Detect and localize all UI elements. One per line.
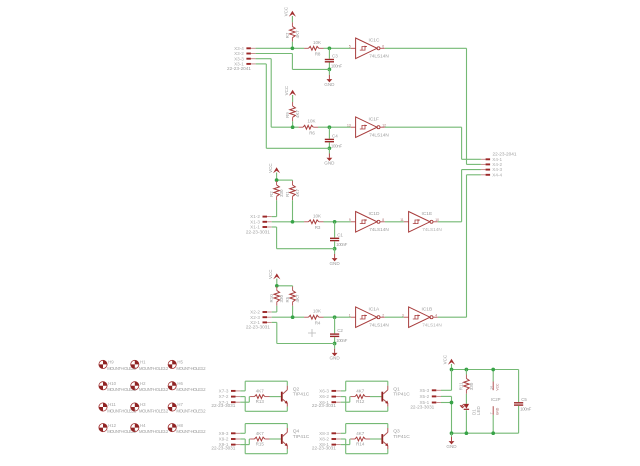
svg-text:IC1D: IC1D — [369, 211, 380, 217]
svg-text:4K7: 4K7 — [295, 30, 300, 39]
svg-text:Q1: Q1 — [393, 386, 400, 392]
svg-text:H12: H12 — [108, 423, 116, 428]
svg-text:4K7: 4K7 — [295, 294, 300, 303]
svg-text:4K7: 4K7 — [256, 389, 265, 394]
svg-text:10K: 10K — [313, 309, 321, 314]
svg-text:1: 1 — [349, 313, 351, 317]
svg-text:H5: H5 — [177, 360, 183, 365]
svg-text:MOUNT-HOLE3.2: MOUNT-HOLE3.2 — [139, 366, 169, 371]
svg-text:C2: C2 — [337, 328, 343, 333]
svg-text:GND: GND — [329, 356, 340, 361]
svg-text:100nF: 100nF — [520, 407, 532, 412]
svg-text:H2: H2 — [140, 381, 146, 386]
svg-text:100nF: 100nF — [336, 242, 348, 247]
svg-text:X9-3: X9-3 — [219, 431, 229, 436]
svg-text:4K7: 4K7 — [295, 188, 300, 197]
svg-text:MOUNT-HOLE3.2: MOUNT-HOLE3.2 — [176, 387, 206, 392]
svg-text:MOUNT-HOLE3.2: MOUNT-HOLE3.2 — [176, 429, 206, 434]
svg-text:100nF: 100nF — [331, 143, 343, 148]
svg-text:TIP41C: TIP41C — [393, 391, 410, 397]
svg-text:22-23-2041: 22-23-2041 — [493, 152, 517, 157]
svg-text:330: 330 — [279, 294, 284, 302]
svg-text:330: 330 — [469, 382, 474, 390]
svg-text:GND: GND — [324, 161, 335, 166]
svg-text:74LS14N: 74LS14N — [369, 133, 389, 138]
svg-text:IC1F: IC1F — [369, 117, 379, 123]
svg-text:C4: C4 — [332, 133, 338, 138]
svg-text:H7: H7 — [177, 402, 183, 407]
svg-text:7: 7 — [490, 412, 494, 414]
svg-text:X9-2: X9-2 — [219, 437, 229, 442]
svg-text:14: 14 — [490, 386, 494, 390]
svg-text:Q2: Q2 — [293, 386, 300, 392]
svg-text:C3: C3 — [332, 54, 338, 59]
svg-text:X8-3: X8-3 — [319, 431, 329, 436]
svg-text:X6-2: X6-2 — [319, 394, 329, 399]
svg-text:22-23-3031: 22-23-3031 — [410, 405, 434, 410]
svg-text:4K7: 4K7 — [256, 431, 265, 436]
svg-text:100nF: 100nF — [331, 63, 343, 68]
svg-text:TIP41C: TIP41C — [293, 434, 310, 440]
svg-text:4: 4 — [435, 313, 437, 317]
svg-text:74LS14N: 74LS14N — [369, 227, 389, 232]
svg-text:H9: H9 — [108, 360, 114, 365]
svg-text:4K7: 4K7 — [356, 431, 365, 436]
svg-text:H3: H3 — [140, 402, 146, 407]
svg-text:3: 3 — [402, 313, 404, 317]
svg-text:R8: R8 — [315, 51, 321, 56]
svg-text:R9: R9 — [285, 112, 290, 118]
svg-text:10K: 10K — [308, 119, 316, 124]
svg-text:X8-2: X8-2 — [319, 437, 329, 442]
svg-text:74LS14N: 74LS14N — [369, 323, 389, 328]
svg-text:VCC: VCC — [443, 354, 448, 364]
svg-text:11: 11 — [400, 218, 404, 222]
svg-text:VCC: VCC — [284, 85, 289, 95]
svg-text:LED: LED — [476, 405, 481, 415]
svg-text:R4: R4 — [315, 320, 321, 325]
svg-text:22-23-3031: 22-23-3031 — [246, 325, 270, 330]
svg-text:22-23-3031: 22-23-3031 — [246, 229, 270, 234]
svg-text:10K: 10K — [313, 40, 321, 45]
svg-text:GND: GND — [329, 261, 340, 266]
svg-text:X5-3: X5-3 — [419, 388, 429, 393]
svg-text:22-23-3031: 22-23-3031 — [211, 446, 235, 451]
svg-text:GND: GND — [446, 444, 457, 449]
svg-text:TIP41C: TIP41C — [393, 434, 410, 440]
svg-text:R12: R12 — [356, 399, 365, 404]
svg-text:X7-2: X7-2 — [219, 394, 229, 399]
svg-text:74LS14N: 74LS14N — [422, 323, 442, 328]
svg-text:R5: R5 — [285, 296, 290, 302]
svg-text:GND: GND — [496, 407, 500, 415]
svg-text:IC1A: IC1A — [369, 307, 380, 313]
svg-text:MOUNT-HOLE3.2: MOUNT-HOLE3.2 — [176, 408, 206, 413]
svg-text:Q4: Q4 — [293, 429, 300, 435]
svg-text:R6: R6 — [309, 130, 315, 135]
svg-text:IC1B: IC1B — [422, 307, 433, 313]
svg-text:10K: 10K — [313, 213, 321, 218]
svg-text:MOUNT-HOLE3.2: MOUNT-HOLE3.2 — [139, 387, 169, 392]
svg-text:C5: C5 — [521, 397, 527, 402]
svg-text:IC2P: IC2P — [491, 397, 501, 402]
svg-text:H1: H1 — [140, 360, 146, 365]
svg-text:8: 8 — [382, 218, 384, 222]
svg-text:5: 5 — [349, 44, 351, 48]
svg-text:Q3: Q3 — [393, 429, 400, 435]
svg-text:X4-4: X4-4 — [492, 172, 502, 177]
svg-text:VCC: VCC — [284, 6, 289, 16]
svg-text:9: 9 — [349, 218, 351, 222]
svg-text:H10: H10 — [108, 381, 116, 386]
svg-text:IC1E: IC1E — [422, 211, 433, 217]
svg-text:H6: H6 — [177, 381, 183, 386]
svg-text:R13: R13 — [256, 399, 265, 404]
svg-text:R15: R15 — [256, 442, 265, 447]
svg-text:MOUNT-HOLE3.2: MOUNT-HOLE3.2 — [176, 366, 206, 371]
svg-text:R3: R3 — [315, 225, 321, 230]
svg-text:MOUNT-HOLE3.2: MOUNT-HOLE3.2 — [139, 429, 169, 434]
svg-text:H8: H8 — [177, 423, 183, 428]
svg-text:4K7: 4K7 — [356, 389, 365, 394]
svg-text:X5-2: X5-2 — [419, 394, 429, 399]
svg-text:H11: H11 — [108, 402, 116, 407]
svg-text:R7: R7 — [285, 32, 290, 38]
svg-text:330: 330 — [279, 189, 284, 197]
svg-text:22-23-3031: 22-23-3031 — [312, 446, 336, 451]
svg-text:VCC: VCC — [268, 163, 273, 173]
svg-text:R14: R14 — [356, 442, 365, 447]
svg-text:100nF: 100nF — [336, 338, 348, 343]
svg-text:13: 13 — [347, 123, 351, 127]
svg-text:74LS14N: 74LS14N — [369, 54, 389, 59]
svg-text:2: 2 — [382, 313, 384, 317]
svg-text:X6-3: X6-3 — [319, 389, 329, 394]
svg-text:X7-3: X7-3 — [219, 389, 229, 394]
svg-text:TIP41C: TIP41C — [293, 391, 310, 397]
svg-text:VCC: VCC — [268, 269, 273, 279]
svg-text:GND: GND — [324, 82, 335, 87]
svg-text:MOUNT-HOLE3.2: MOUNT-HOLE3.2 — [139, 408, 169, 413]
svg-text:R2: R2 — [269, 191, 274, 197]
svg-text:22-23-2041: 22-23-2041 — [227, 66, 251, 71]
svg-text:R10: R10 — [269, 294, 274, 303]
svg-text:22-23-3031: 22-23-3031 — [312, 403, 336, 408]
svg-text:C1: C1 — [337, 232, 343, 237]
svg-text:R11: R11 — [459, 382, 464, 390]
svg-text:VCC: VCC — [496, 383, 500, 391]
svg-text:R1: R1 — [285, 191, 290, 197]
svg-text:IC1C: IC1C — [369, 38, 380, 44]
svg-text:6: 6 — [382, 44, 384, 48]
svg-text:H4: H4 — [140, 423, 146, 428]
svg-text:4K7: 4K7 — [295, 109, 300, 118]
svg-text:22-23-3031: 22-23-3031 — [211, 403, 235, 408]
svg-text:74LS14N: 74LS14N — [422, 227, 442, 232]
